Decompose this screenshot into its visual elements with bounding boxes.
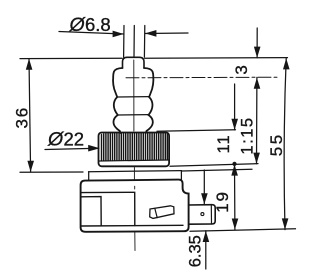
svg-text:Ø: Ø: [69, 14, 87, 36]
svg-text:6.8: 6.8: [85, 14, 111, 35]
svg-text:22: 22: [64, 129, 85, 150]
svg-text:36: 36: [12, 106, 31, 129]
svg-text:1:15: 1:15: [238, 116, 256, 154]
svg-text:11: 11: [215, 134, 233, 153]
svg-text:6.35: 6.35: [186, 235, 204, 267]
svg-text:3: 3: [232, 63, 251, 74]
svg-text:Ø: Ø: [47, 129, 65, 151]
svg-text:19: 19: [213, 190, 232, 213]
svg-text:55: 55: [267, 132, 286, 156]
